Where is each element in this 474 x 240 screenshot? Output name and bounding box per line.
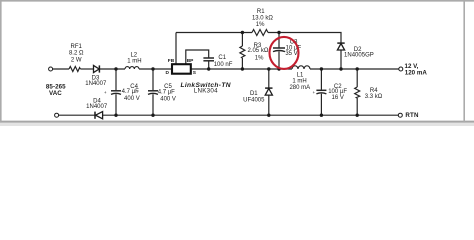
op IC U1 LinkSwitch-TN body [172,64,191,74]
terminal input line [49,67,53,71]
pin labels U1 [166,58,197,76]
capacitor C1 [203,57,214,59]
label D3 [85,75,107,87]
node R4 bottom [356,114,359,117]
terminal RTN [398,113,402,117]
wire input top to RF1 [53,68,69,70]
svg-text:2.05 kΩ: 2.05 kΩ [247,48,268,54]
svg-text:VAC: VAC [49,90,62,97]
resistor R3 [241,33,243,47]
bottom gray strip below frame [0,123,474,126]
diode D1 [265,88,272,95]
svg-text:UF4005: UF4005 [243,97,265,103]
diode D4 [95,112,103,119]
svg-text:FB: FB [168,58,175,64]
wire U1 S pin to L1 [191,68,293,70]
resistor RF1 [69,67,80,72]
svg-text:RTN: RTN [405,112,419,119]
svg-text:D: D [166,70,170,76]
node C2 bottom [320,114,323,117]
node D1 top [267,67,270,70]
label L1 [289,73,310,91]
svg-text:R1: R1 [257,9,265,15]
svg-text:1%: 1% [255,55,264,61]
svg-text:C1: C1 [218,55,226,61]
capacitor C3 [278,33,280,48]
svg-text:1N4007: 1N4007 [85,81,107,87]
svg-text:100 nF: 100 nF [214,62,233,68]
capacitor C4 [115,69,117,90]
svg-text:RF1: RF1 [71,44,83,50]
svg-text:1N4007: 1N4007 [86,104,108,110]
label input voltage [46,83,66,97]
diode D3 [94,65,100,72]
wire R1 to D2 corner [268,33,341,44]
svg-text:400 V: 400 V [160,96,176,102]
svg-text:400 V: 400 V [124,96,140,102]
capacitor C5 [152,69,154,90]
node C1 bottom [207,67,210,70]
node R3 bottom [241,67,244,70]
svg-text:120 mA: 120 mA [405,69,428,76]
bottom RTN rail [103,114,399,116]
frame top border [0,0,474,2]
svg-text:3.3 kΩ: 3.3 kΩ [365,94,383,100]
resistor R1 [252,30,268,36]
diode D1 leads [268,69,270,88]
FB node rail [176,32,252,34]
node D1 bottom [267,114,270,117]
diode D2 [337,43,344,50]
diode D2 leads [340,50,342,70]
wire input bottom to D4 [59,114,95,116]
inductor L2 [125,67,139,69]
svg-text:+: + [104,90,107,95]
svg-text:1 mH: 1 mH [292,79,306,85]
svg-text:16 V: 16 V [332,95,344,101]
svg-text:D1: D1 [250,91,258,97]
label C3 [269,40,301,57]
wire L1 to output terminal [310,68,399,70]
label C4 [104,84,140,102]
svg-text:LNK304: LNK304 [194,88,218,95]
frame bottom border [0,121,474,123]
svg-text:8.2 Ω: 8.2 Ω [69,51,84,57]
wire RF1 to D3 [80,68,93,70]
label D2 [344,47,374,58]
svg-text:280 mA: 280 mA [289,85,310,91]
node C2 top [320,67,323,70]
node C4 top [114,67,117,70]
wire L2 to U1 D pin [139,68,172,70]
node C4 bottom [114,114,117,117]
capacitor C2 [320,69,322,90]
label R4 [365,88,383,100]
label output 12V [405,63,428,77]
inductor L1 [292,66,310,69]
svg-text:4.7 µF: 4.7 µF [158,90,175,96]
label L2 [127,52,141,64]
terminal output 12V [399,67,403,71]
FB pin wire [175,33,177,64]
node C5 top [151,67,154,70]
node C3 bottom [277,67,280,70]
label RF1 [69,44,84,64]
junction node dots [114,31,359,117]
node D2 bottom [339,67,342,70]
highlight ellipse around C3 [270,37,299,69]
node C3 top [277,31,280,34]
label D1 [243,91,265,103]
frame right border [463,0,465,123]
frame left border [0,0,2,123]
svg-text:1%: 1% [256,22,265,28]
svg-text:BP: BP [187,58,194,64]
svg-text:1N4005GP: 1N4005GP [344,52,374,58]
label C5 [136,84,175,102]
BP pin wire to C1 [186,50,209,64]
label C2 [313,84,348,101]
label R3 [247,43,268,62]
svg-text:2 W: 2 W [71,58,82,64]
terminal input neutral [55,113,59,117]
resistor R4 [356,69,358,87]
svg-text:+: + [136,89,139,94]
node R3 top [241,31,244,34]
svg-text:13.0 kΩ: 13.0 kΩ [252,15,273,21]
label C1 [214,55,233,68]
node C5 bottom [151,114,154,117]
svg-text:1 mH: 1 mH [127,58,141,64]
node R4 top [356,67,359,70]
label D4 [86,99,108,110]
svg-text:35 V: 35 V [285,51,297,57]
label R1 [252,9,273,28]
wire D3 to L2 [99,68,125,70]
